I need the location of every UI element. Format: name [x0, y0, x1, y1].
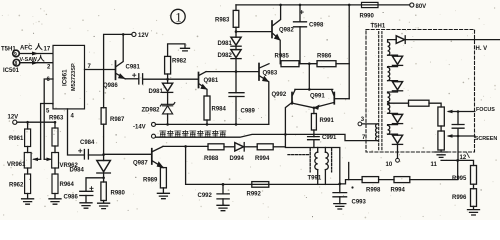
ground below R964: [49, 194, 61, 205]
flyback pin 10: [397, 144, 399, 158]
transistor Q991: [333, 93, 335, 104]
wire Q987 collector to C992 row: [186, 146, 340, 184]
wire base node to output pair: [308, 64, 310, 90]
wire Q987 base: [104, 153, 152, 155]
svg-text:10: 10: [386, 162, 393, 168]
svg-text:C992: C992: [198, 193, 213, 199]
wire -14V rail: [156, 123, 269, 125]
svg-text:3: 3: [361, 117, 365, 123]
diode D982: [231, 50, 241, 58]
diode D981 left: [167, 79, 169, 83]
ground below R962: [22, 194, 34, 205]
transistor Q987: [151, 149, 153, 164]
resistor R980: [101, 182, 106, 201]
wire Q981 collector row: [206, 71, 259, 73]
diode D994: [235, 143, 244, 151]
capacitor C984: [84, 150, 88, 160]
wire SCREEN output: [458, 135, 475, 137]
potentiometer VR961: [27, 147, 29, 153]
wire R986 to supply column: [336, 63, 349, 65]
wire R987 to D984: [103, 124, 105, 160]
flyback secondary winding section 1: [388, 42, 390, 55]
resistor R988: [208, 144, 224, 150]
rectifier diode 2: [388, 81, 398, 82]
IC U961 box: [53, 45, 85, 109]
ground below C986: [80, 203, 92, 208]
svg-text:D994: D994: [230, 156, 245, 162]
capacitor C992: [222, 183, 225, 186]
ground below R989: [157, 188, 169, 199]
flyback core: [379, 32, 382, 151]
capacitor C991: [308, 137, 320, 140]
terminal -14V: [152, 122, 156, 126]
wire C981 to Q981 base: [143, 78, 199, 80]
wire C984 to column: [88, 154, 103, 156]
flyback HV rectifier diode: [388, 40, 397, 42]
wire to Q982 base: [236, 31, 271, 33]
potentiometer VR962: [54, 146, 56, 153]
flyback T5H1 dashed box: [366, 30, 475, 153]
wire D994 to R994: [244, 146, 257, 148]
svg-text:R992: R992: [247, 192, 262, 198]
svg-text:SCREEN: SCREEN: [475, 136, 498, 142]
terminal 80V: [410, 3, 414, 7]
transistor Q983: [258, 64, 260, 81]
flyback secondary winding section 3: [388, 93, 390, 114]
svg-text:1: 1: [175, 9, 182, 24]
top supply rail: [236, 4, 410, 6]
VR961 wiper arrow: [34, 158, 41, 160]
wire C991 node to flyback pin 7: [314, 134, 378, 140]
flyback secondary winding section 4: [388, 125, 390, 134]
ground below C993: [334, 204, 346, 209]
focus filter capacitor: [457, 112, 459, 125]
wire R988 to D994: [224, 146, 235, 148]
svg-text:R994: R994: [391, 188, 406, 194]
capacitor C989: [229, 93, 244, 97]
transistor Q986: [115, 61, 117, 79]
terminal centering circuit: [152, 134, 156, 138]
wire R994 to pin12 riser: [410, 160, 458, 179]
zener ZD982: [167, 92, 169, 104]
pin 6 stub and wire down to VR962 wiper: [44, 79, 53, 159]
ground below R980: [98, 201, 110, 209]
ground below C992: [217, 205, 229, 210]
resistor R962: [27, 168, 29, 174]
capacitor C998: [299, 5, 301, 22]
diode D984: [97, 161, 111, 172]
svg-text:R995: R995: [452, 176, 467, 182]
wire bottom row jog: [340, 180, 362, 184]
circled 1 marker: [171, 9, 185, 23]
svg-text:H. V: H. V: [476, 46, 488, 52]
resistor R998: [362, 177, 379, 183]
rectifier diode 3: [388, 113, 398, 114]
wire 12V top rail to R987 column: [104, 34, 132, 107]
svg-text:T991: T991: [308, 176, 322, 182]
pin 12 node: [456, 159, 459, 162]
svg-text:R996: R996: [452, 195, 467, 201]
resistor R963: [54, 122, 56, 128]
transformer T991 secondary: [324, 148, 326, 153]
wire HV output: [405, 39, 499, 41]
svg-text:C993: C993: [352, 200, 367, 206]
supply column: [348, 5, 350, 99]
wire centering line to C991 node: [156, 134, 314, 137]
screen potentiometer resistor: [440, 126, 442, 131]
wire R998 to R994: [379, 179, 394, 181]
resistor R994 bottom: [394, 177, 410, 183]
resistor R961: [27, 122, 29, 129]
svg-text:12: 12: [460, 155, 467, 161]
focus potentiometer resistor: [438, 107, 444, 126]
rectifier diode 4: [388, 134, 398, 135]
ground below R996: [468, 206, 480, 215]
wire Q987 collector row: [163, 145, 208, 147]
transformer T991 core: [310, 149, 331, 172]
resistor R985: [281, 61, 299, 67]
wire output node down to T991: [285, 134, 339, 184]
resistor R994: [257, 144, 273, 150]
transformer T991 primary: [317, 148, 319, 153]
wire R994 to node: [273, 146, 285, 148]
screen wiper arrow: [449, 135, 459, 137]
transistor Q981: [198, 73, 200, 88]
12V terminal top: [132, 32, 136, 36]
wire V-SAW input with arrow: [20, 62, 53, 64]
connector pin 8 circle: [13, 59, 20, 66]
resistor R991: [313, 108, 315, 114]
focus wiper arrow: [449, 111, 459, 113]
focus series resistor: [409, 100, 430, 106]
transistor Q982: [271, 21, 273, 38]
resistor R983: [235, 5, 237, 10]
resistor R989: [160, 168, 166, 188]
capacitor C981: [139, 74, 143, 84]
flyback pin 3: [358, 122, 362, 126]
capacitor C986: [86, 178, 104, 192]
svg-text:R988: R988: [204, 156, 219, 162]
resistor R982: [167, 74, 169, 79]
wire 12V rail: [17, 121, 55, 123]
wire to focus divider: [429, 103, 441, 107]
resistor R964: [54, 168, 56, 174]
pin 5 stub and wire down to VR961 wiper: [41, 104, 53, 160]
svg-text:11: 11: [431, 162, 438, 168]
resistor R984: [204, 96, 210, 120]
wire R985-R986: [299, 63, 317, 65]
ground below divider: [435, 150, 447, 157]
svg-text:7: 7: [362, 135, 366, 141]
flyback secondary winding section 2: [388, 67, 390, 80]
svg-text:FOCUS: FOCUS: [476, 107, 495, 113]
flyback primary winding: [376, 124, 378, 141]
resistor R996: [473, 184, 475, 189]
resistor R990: [362, 2, 379, 7]
focus tap wire: [388, 102, 391, 105]
wire screen node to pin 12: [457, 136, 459, 160]
svg-text:R994: R994: [255, 156, 270, 162]
resistor R986: [317, 61, 336, 67]
pin 4 stub: [68, 109, 85, 155]
rectifier diode 1: [388, 55, 398, 56]
12V terminal left: [13, 120, 17, 124]
svg-text:R998: R998: [366, 188, 381, 194]
resistor R995: [471, 166, 477, 185]
svg-text:T5H1: T5H1: [371, 24, 386, 30]
wire Q986 emitter to C981: [125, 78, 139, 80]
diode D981: [231, 37, 241, 45]
label 至自行中心调整电路: [160, 130, 226, 136]
capacitor C993: [338, 183, 341, 186]
VR962 wiper arrow: [44, 158, 50, 160]
wire FOCUS output: [458, 111, 475, 113]
wire AFC input with arrow: [20, 53, 53, 55]
wire D984 to R980: [103, 173, 105, 182]
transistor Q992: [295, 88, 333, 90]
connector pin 9 circle: [13, 50, 20, 57]
R982 top wire to chassis stub: [168, 44, 185, 57]
pin 7 wire to Q986 base: [85, 69, 115, 71]
resistor R987: [101, 108, 106, 125]
resistor R992: [252, 182, 269, 188]
